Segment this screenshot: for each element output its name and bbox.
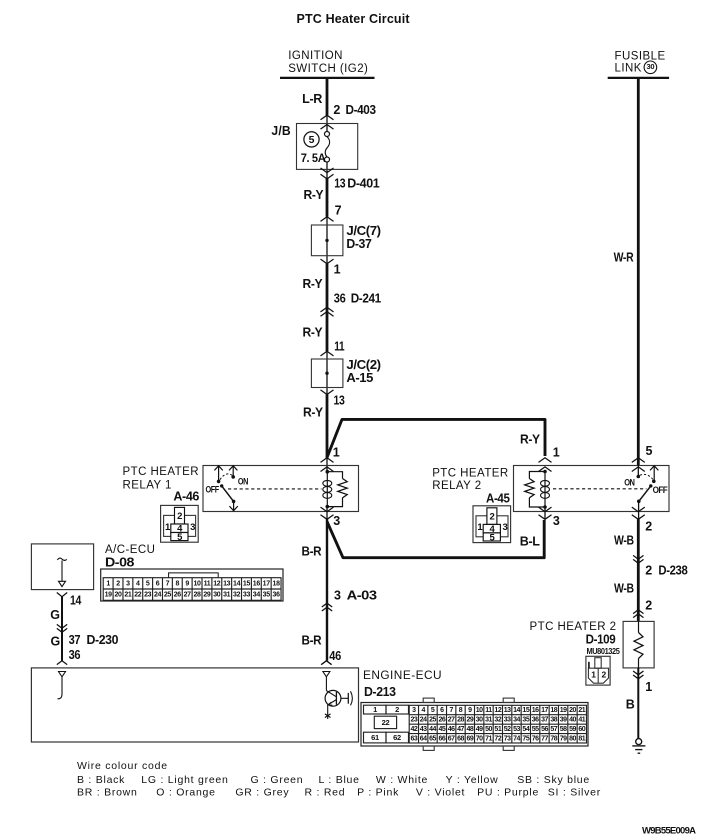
svg-text:29: 29 — [466, 717, 473, 724]
svg-text:47: 47 — [457, 726, 464, 733]
svg-text:25: 25 — [429, 717, 436, 724]
svg-text:W-R: W-R — [614, 251, 634, 265]
svg-text:ON: ON — [238, 477, 248, 487]
svg-text:24: 24 — [420, 717, 427, 724]
svg-text:73: 73 — [504, 736, 511, 743]
svg-text:3: 3 — [412, 707, 416, 714]
svg-text:B-L: B-L — [520, 535, 540, 549]
svg-text:74: 74 — [513, 736, 520, 743]
svg-text:W : White: W : White — [376, 774, 428, 786]
svg-text:D-37: D-37 — [346, 237, 371, 251]
svg-text:2: 2 — [490, 512, 495, 523]
svg-text:OFF: OFF — [653, 485, 669, 495]
svg-text:R-Y: R-Y — [303, 277, 324, 291]
svg-text:18: 18 — [273, 581, 281, 588]
svg-text:71: 71 — [485, 736, 492, 743]
svg-text:5: 5 — [646, 444, 653, 458]
svg-text:59: 59 — [569, 726, 576, 733]
svg-text:PTC HEATER: PTC HEATER — [432, 468, 509, 480]
svg-text:2: 2 — [395, 705, 399, 714]
svg-text:77: 77 — [541, 736, 548, 743]
svg-text:B-R: B-R — [302, 634, 322, 648]
svg-text:2: 2 — [602, 670, 607, 680]
svg-text:17: 17 — [263, 581, 271, 588]
svg-text:41: 41 — [578, 717, 585, 724]
svg-text:20: 20 — [569, 707, 576, 714]
svg-text:2: 2 — [116, 581, 120, 588]
svg-text:11: 11 — [485, 707, 492, 714]
svg-text:Wire colour code: Wire colour code — [77, 760, 168, 772]
svg-text:V : Violet: V : Violet — [416, 787, 465, 799]
svg-text:17: 17 — [541, 707, 548, 714]
svg-text:27: 27 — [448, 717, 455, 724]
svg-text:5: 5 — [177, 532, 183, 543]
svg-text:GR : Grey: GR : Grey — [235, 787, 289, 799]
svg-text:33: 33 — [243, 592, 251, 599]
svg-text:D-238: D-238 — [658, 564, 687, 578]
svg-text:11: 11 — [204, 581, 211, 588]
svg-text:2: 2 — [645, 564, 652, 578]
svg-text:10: 10 — [476, 707, 483, 714]
svg-text:21: 21 — [578, 707, 585, 714]
svg-text:OFF: OFF — [206, 485, 220, 495]
svg-text:8: 8 — [459, 707, 463, 714]
svg-text:65: 65 — [429, 736, 436, 743]
svg-text:52: 52 — [504, 726, 511, 733]
svg-text:1: 1 — [165, 522, 171, 533]
svg-text:PTC HEATER 2: PTC HEATER 2 — [530, 621, 617, 633]
svg-text:18: 18 — [550, 707, 557, 714]
svg-text:J/C(7): J/C(7) — [346, 224, 381, 238]
svg-text:D-109: D-109 — [586, 633, 616, 647]
svg-text:40: 40 — [569, 717, 576, 724]
svg-text:81: 81 — [578, 736, 585, 743]
svg-text:10: 10 — [194, 581, 202, 588]
svg-text:76: 76 — [532, 736, 539, 743]
svg-text:RELAY 1: RELAY 1 — [123, 479, 172, 491]
svg-text:3: 3 — [190, 522, 195, 533]
svg-text:25: 25 — [164, 592, 172, 599]
svg-text:46: 46 — [329, 649, 341, 663]
svg-text:1: 1 — [591, 670, 596, 680]
svg-text:30: 30 — [476, 717, 483, 724]
svg-text:36: 36 — [532, 717, 539, 724]
svg-text:15: 15 — [243, 581, 251, 588]
svg-text:22: 22 — [134, 592, 142, 599]
svg-text:LINK: LINK — [615, 63, 642, 75]
svg-text:58: 58 — [560, 726, 567, 733]
svg-text:D-213: D-213 — [364, 685, 396, 699]
svg-text:33: 33 — [504, 717, 511, 724]
svg-text:SB : Sky blue: SB : Sky blue — [517, 774, 590, 786]
svg-text:49: 49 — [476, 726, 483, 733]
svg-text:31: 31 — [485, 717, 492, 724]
svg-text:6: 6 — [156, 581, 160, 588]
svg-text:19: 19 — [105, 592, 113, 599]
svg-text:W-B: W-B — [614, 582, 634, 596]
svg-text:D-08: D-08 — [105, 555, 135, 569]
svg-text:16: 16 — [532, 707, 539, 714]
svg-text:14: 14 — [233, 581, 241, 588]
svg-text:23: 23 — [410, 717, 417, 724]
svg-text:55: 55 — [532, 726, 539, 733]
svg-text:36: 36 — [273, 592, 281, 599]
svg-text:G : Green: G : Green — [251, 774, 304, 786]
svg-text:R-Y: R-Y — [304, 188, 325, 202]
svg-text:43: 43 — [420, 726, 427, 733]
svg-text:W-B: W-B — [614, 534, 634, 548]
svg-text:5: 5 — [431, 707, 435, 714]
svg-text:1: 1 — [645, 680, 652, 694]
svg-text:28: 28 — [194, 592, 202, 599]
svg-text:1: 1 — [106, 581, 110, 588]
svg-text:53: 53 — [513, 726, 520, 733]
svg-text:16: 16 — [253, 581, 261, 588]
svg-text:32: 32 — [494, 717, 501, 724]
svg-text:G: G — [51, 634, 60, 648]
svg-text:67: 67 — [448, 736, 455, 743]
svg-text:RELAY 2: RELAY 2 — [432, 480, 481, 492]
svg-text:56: 56 — [541, 726, 548, 733]
svg-text:2: 2 — [645, 519, 652, 533]
svg-text:IGNITION: IGNITION — [288, 50, 343, 62]
svg-text:2: 2 — [333, 103, 340, 117]
svg-text:13: 13 — [334, 393, 345, 407]
svg-text:7: 7 — [166, 581, 170, 588]
svg-text:35: 35 — [522, 717, 529, 724]
svg-text:5: 5 — [490, 532, 496, 543]
svg-text:57: 57 — [550, 726, 557, 733]
svg-text:7. 5A: 7. 5A — [301, 153, 326, 165]
svg-text:SWITCH (IG2): SWITCH (IG2) — [288, 63, 368, 75]
svg-text:37: 37 — [69, 633, 81, 647]
svg-text:80: 80 — [569, 736, 576, 743]
svg-text:78: 78 — [550, 736, 557, 743]
svg-text:44: 44 — [429, 726, 436, 733]
svg-text:5: 5 — [146, 581, 150, 588]
svg-text:A-03: A-03 — [347, 589, 378, 603]
svg-text:1: 1 — [373, 705, 377, 714]
svg-text:MU801325: MU801325 — [587, 647, 621, 656]
svg-text:J/C(2): J/C(2) — [346, 358, 381, 372]
svg-text:26: 26 — [174, 592, 182, 599]
svg-text:64: 64 — [420, 736, 427, 743]
svg-text:1: 1 — [333, 445, 340, 459]
svg-text:B : Black: B : Black — [77, 774, 125, 786]
svg-text:9: 9 — [468, 707, 472, 714]
svg-text:6: 6 — [440, 707, 444, 714]
svg-text:7: 7 — [449, 707, 453, 714]
svg-text:39: 39 — [560, 717, 567, 724]
svg-text:42: 42 — [410, 726, 417, 733]
svg-text:60: 60 — [578, 726, 585, 733]
svg-text:LG : Light green: LG : Light green — [141, 774, 228, 786]
svg-text:3: 3 — [333, 514, 340, 528]
svg-text:72: 72 — [494, 736, 501, 743]
svg-text:12: 12 — [213, 581, 221, 588]
svg-text:35: 35 — [263, 592, 271, 599]
svg-text:28: 28 — [457, 717, 464, 724]
svg-text:B: B — [626, 698, 635, 712]
svg-text:32: 32 — [233, 592, 241, 599]
svg-text:W9B55E009A: W9B55E009A — [642, 826, 696, 837]
svg-text:Y : Yellow: Y : Yellow — [446, 774, 499, 786]
svg-text:BR : Brown: BR : Brown — [77, 787, 138, 799]
svg-text:14: 14 — [70, 594, 81, 608]
svg-text:75: 75 — [522, 736, 529, 743]
svg-text:FUSIBLE: FUSIBLE — [615, 50, 666, 62]
svg-text:46: 46 — [448, 726, 455, 733]
svg-text:13: 13 — [334, 176, 345, 190]
svg-text:22: 22 — [382, 718, 390, 727]
svg-text:J/B: J/B — [271, 124, 291, 138]
svg-text:4: 4 — [136, 581, 140, 588]
svg-text:D-230: D-230 — [87, 633, 119, 647]
svg-text:13: 13 — [223, 581, 231, 588]
svg-text:R : Red: R : Red — [305, 787, 346, 799]
svg-text:21: 21 — [124, 592, 132, 599]
svg-text:G: G — [50, 608, 59, 622]
svg-text:31: 31 — [223, 592, 231, 599]
svg-text:62: 62 — [393, 733, 401, 742]
svg-text:3: 3 — [126, 581, 130, 588]
svg-text:13: 13 — [504, 707, 511, 714]
svg-text:27: 27 — [184, 592, 192, 599]
svg-text:51: 51 — [494, 726, 501, 733]
svg-text:2: 2 — [645, 598, 652, 612]
svg-text:3: 3 — [334, 589, 341, 603]
svg-text:34: 34 — [253, 592, 261, 599]
svg-text:L : Blue: L : Blue — [319, 774, 360, 786]
svg-text:68: 68 — [457, 736, 464, 743]
svg-text:48: 48 — [466, 726, 473, 733]
svg-text:SI : Silver: SI : Silver — [548, 787, 601, 799]
svg-text:R-Y: R-Y — [303, 406, 324, 420]
svg-text:9: 9 — [185, 581, 189, 588]
svg-text:R-Y: R-Y — [520, 432, 541, 446]
svg-text:5: 5 — [309, 134, 315, 146]
svg-text:24: 24 — [154, 592, 162, 599]
svg-text:D-401: D-401 — [347, 176, 379, 190]
svg-text:3: 3 — [553, 514, 560, 528]
svg-text:79: 79 — [560, 736, 567, 743]
svg-text:14: 14 — [513, 707, 520, 714]
svg-text:61: 61 — [371, 733, 379, 742]
svg-text:63: 63 — [410, 736, 417, 743]
svg-text:O : Orange: O : Orange — [156, 787, 215, 799]
svg-text:PU : Purple: PU : Purple — [477, 787, 539, 799]
svg-text:4: 4 — [421, 707, 425, 714]
svg-text:8: 8 — [176, 581, 180, 588]
svg-text:36: 36 — [334, 291, 346, 305]
svg-text:2: 2 — [177, 511, 182, 522]
svg-text:29: 29 — [203, 592, 211, 599]
svg-text:R-Y: R-Y — [303, 326, 324, 340]
svg-text:23: 23 — [144, 592, 152, 599]
svg-text:69: 69 — [466, 736, 473, 743]
svg-text:66: 66 — [438, 736, 445, 743]
svg-text:B-R: B-R — [302, 545, 322, 559]
svg-text:19: 19 — [560, 707, 567, 714]
svg-text:L-R: L-R — [302, 92, 322, 106]
svg-text:26: 26 — [438, 717, 445, 724]
svg-text:P : Pink: P : Pink — [357, 787, 399, 799]
svg-text:45: 45 — [438, 726, 445, 733]
svg-text:D-403: D-403 — [346, 103, 377, 117]
svg-text:50: 50 — [485, 726, 492, 733]
svg-text:70: 70 — [476, 736, 483, 743]
svg-text:30: 30 — [647, 62, 655, 71]
svg-text:D-241: D-241 — [351, 291, 382, 305]
svg-text:11: 11 — [334, 339, 344, 353]
svg-text:ON: ON — [624, 478, 634, 488]
svg-text:1: 1 — [477, 522, 483, 533]
svg-text:20: 20 — [114, 592, 122, 599]
svg-text:A-46: A-46 — [173, 490, 199, 504]
svg-text:36: 36 — [69, 648, 81, 662]
svg-text:A-15: A-15 — [346, 371, 373, 385]
svg-text:PTC HEATER: PTC HEATER — [123, 466, 200, 478]
svg-text:15: 15 — [522, 707, 529, 714]
svg-text:PTC Heater Circuit: PTC Heater Circuit — [297, 12, 411, 26]
svg-text:A/C-ECU: A/C-ECU — [105, 544, 155, 556]
svg-text:34: 34 — [513, 717, 520, 724]
svg-text:30: 30 — [213, 592, 221, 599]
svg-text:38: 38 — [550, 717, 557, 724]
svg-text:1: 1 — [553, 445, 560, 459]
svg-text:54: 54 — [522, 726, 529, 733]
svg-text:3: 3 — [503, 522, 508, 533]
svg-text:12: 12 — [494, 707, 501, 714]
svg-text:ENGINE-ECU: ENGINE-ECU — [363, 670, 442, 682]
svg-text:1: 1 — [334, 263, 341, 277]
svg-text:7: 7 — [335, 203, 342, 217]
svg-text:A-45: A-45 — [486, 492, 510, 506]
svg-text:37: 37 — [541, 717, 548, 724]
